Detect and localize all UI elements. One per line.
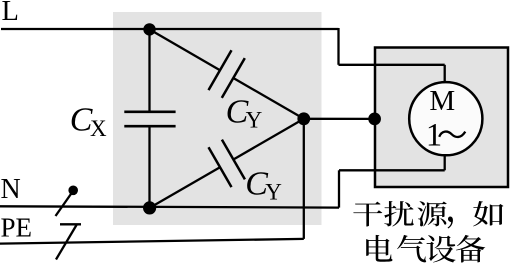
svg-text:X: X: [90, 116, 107, 141]
svg-text:M: M: [429, 85, 455, 117]
svg-text:PE: PE: [1, 212, 33, 242]
svg-text:N: N: [1, 174, 21, 205]
svg-text:Y: Y: [246, 107, 263, 132]
svg-text:Y: Y: [265, 180, 282, 205]
svg-text:L: L: [2, 0, 19, 27]
